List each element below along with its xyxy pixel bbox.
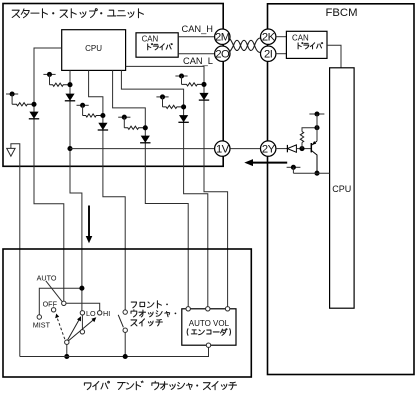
wire washer to bus	[124, 332, 126, 356]
ground wire	[11, 144, 20, 357]
node base junction	[299, 146, 304, 151]
wiper arm to LO (arrow)	[68, 316, 81, 340]
wire CAN_L to 2O	[178, 53, 216, 55]
twisted pair CAN_H/CAN_L wires	[229, 38, 261, 52]
connector 2Y	[261, 141, 276, 156]
svg-text:1V: 1V	[216, 144, 230, 156]
wire CAN driver to CPU U4	[327, 45, 341, 68]
wire CPU pin3 down (encoder feed 1)	[113, 70, 189, 307]
resistor R2 network (stub, R, junction, diode D2)	[43, 72, 75, 101]
CAN driver U2 box	[136, 33, 178, 57]
contact washer top	[123, 310, 127, 314]
start-stop unit box	[3, 4, 223, 167]
svg-text:OFF: OFF	[43, 299, 58, 308]
svg-text:2M: 2M	[215, 32, 230, 44]
wire CPU pin2 down (washer feed)	[89, 70, 126, 310]
svg-text:HI: HI	[103, 309, 110, 318]
wire CPU right pin (encoder feed 3)	[126, 66, 228, 307]
wire AUTO to HI contact	[66, 303, 100, 311]
encoder pin 1	[186, 307, 190, 311]
svg-text:MIST: MIST	[33, 320, 51, 329]
node bus junction 1	[64, 354, 69, 359]
label washer switch line1 (katakana front)	[131, 301, 168, 308]
node MIST/LO junction	[79, 286, 84, 291]
label washer switch line3 (katakana switch)	[131, 319, 162, 326]
wire common to bus	[66, 344, 68, 356]
wire CPU pin1 down (LO feed)	[70, 70, 82, 310]
wire 2I to CAN driver	[275, 53, 286, 55]
wire 2K to CAN driver	[275, 36, 286, 38]
contact LO	[80, 311, 84, 315]
washer switch arm	[118, 315, 123, 328]
node 1V junction	[67, 146, 72, 151]
AUTO leader line	[46, 281, 63, 302]
svg-text:AUTO: AUTO	[37, 273, 57, 282]
CPU U1 box	[62, 30, 126, 71]
resistor R7 (base-emitter)	[300, 128, 317, 149]
svg-text:CPU: CPU	[85, 44, 102, 53]
connector 2I	[261, 46, 276, 61]
contact mid (below LO)	[80, 330, 84, 334]
CAN driver U2 label (katakana driver)	[148, 44, 173, 50]
svg-text:2O: 2O	[215, 49, 230, 61]
wiper arm to HI (arrow)	[69, 317, 97, 341]
svg-text:2K: 2K	[262, 32, 276, 44]
wire emitter vertical	[316, 114, 318, 141]
stub with node (to CPU)	[287, 165, 301, 173]
wiper and washer switch box	[3, 249, 251, 377]
label washer switch line2 (katakana washer)	[131, 310, 176, 317]
resistor R6 network (stub, R, junction, diode D6)	[175, 73, 209, 100]
contact OFF	[51, 308, 55, 312]
wiper arm to OFF (dashed)	[55, 314, 65, 340]
svg-text:CAN: CAN	[142, 35, 159, 44]
contact MIST	[37, 315, 41, 319]
AUTO VOL label (katakana encoder)	[187, 329, 230, 336]
svg-text:2I: 2I	[264, 49, 273, 61]
diode D7 (points left)	[287, 145, 296, 152]
wire LO contact down	[81, 315, 83, 330]
resistor R1 network (stub, R, junction, diode D1)	[6, 91, 39, 118]
svg-text:AUTO VOL: AUTO VOL	[189, 319, 230, 328]
svg-text:LO: LO	[86, 309, 96, 318]
encoder pin 2	[206, 307, 210, 311]
connector 2O	[215, 46, 230, 61]
wire CPU pin4 down (encoder feed 2)	[121, 70, 207, 307]
transistor Q1 (PNP)	[311, 141, 317, 173]
thick left arrow	[244, 159, 287, 166]
svg-text:CAN_H: CAN_H	[182, 24, 214, 34]
wire 2Y to diode D7	[275, 148, 287, 150]
caption (katakana wiper and washer switch)	[84, 381, 236, 390]
svg-text:FBCM: FBCM	[325, 7, 357, 19]
connector 2K	[261, 29, 276, 44]
svg-text:CAN: CAN	[292, 34, 309, 43]
connector 2M	[215, 29, 230, 44]
svg-text:2Y: 2Y	[262, 144, 276, 156]
contact HI	[98, 311, 102, 315]
contact AUTO	[62, 301, 66, 305]
connector 1V	[215, 141, 230, 156]
encoder pin 3	[225, 307, 229, 311]
svg-text:CAN_L: CAN_L	[183, 56, 213, 66]
ground symbol	[7, 147, 15, 156]
svg-text:CPU: CPU	[332, 184, 351, 194]
CPU U4 box	[330, 68, 355, 308]
power stub with node	[309, 111, 324, 116]
contact washer bottom	[123, 328, 127, 332]
unit title (katakana start-stop unit)	[12, 9, 143, 18]
wire CAN_H to 2M	[178, 36, 216, 38]
resistor R5 network (stub, R, junction, diode D5)	[156, 94, 188, 122]
contact common wiper	[65, 340, 69, 344]
CAN driver U3 box	[286, 31, 327, 58]
wire junction to 1V	[70, 148, 216, 150]
wire CPU left pin to node A	[34, 48, 64, 302]
AUTO VOL encoder box	[182, 309, 236, 345]
resistor R4 network (stub, R, junction, diode D4)	[118, 115, 150, 143]
FBCM box	[268, 4, 415, 375]
thick down arrow	[86, 206, 93, 244]
node bus junction 2	[123, 354, 128, 359]
wire MIST branch	[39, 288, 82, 315]
resistor R3 network (stub, R, junction, diode D3)	[77, 103, 109, 130]
CAN driver U3 label (katakana driver)	[298, 43, 323, 49]
wire diode to base node	[296, 148, 311, 150]
wire collector to CPU U4	[293, 172, 329, 174]
node emitter junction	[314, 125, 319, 130]
node collector junction	[314, 171, 319, 176]
encoder pin 4 (bottom)	[206, 343, 210, 347]
bus wire (ground bus)	[20, 347, 209, 356]
wire 1V to 2Y	[230, 148, 260, 150]
